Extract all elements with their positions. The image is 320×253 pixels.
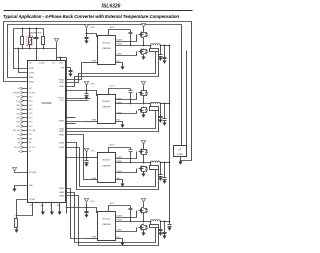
ground GND pin <box>12 189 16 192</box>
power PVCC symbol phase 2 <box>84 82 88 85</box>
capacitor output C3b <box>164 163 166 178</box>
wire driver GND phase 4 <box>116 239 123 243</box>
svg-text:Typical Application - 4-Phase: Typical Application - 4-Phase Buck Conve… <box>3 14 179 19</box>
svg-text:PWM4: PWM4 <box>59 188 64 190</box>
resistor RSEN1 <box>150 49 159 52</box>
svg-text:DRIVER: DRIVER <box>102 48 111 50</box>
svg-text:TCOMP: TCOMP <box>29 199 36 201</box>
svg-text:LOAD: LOAD <box>177 153 183 156</box>
svg-text:BOOT: BOOT <box>110 203 115 205</box>
capacitor output C3a <box>160 163 162 175</box>
svg-text:VID1: VID1 <box>29 122 33 124</box>
resistor R1 <box>22 29 24 37</box>
wire branch to IC TM pin <box>14 29 28 69</box>
svg-text:ISEN4: ISEN4 <box>59 196 64 198</box>
capacitor output C1a <box>160 46 162 55</box>
resistor R3 TCOMP <box>15 219 18 228</box>
svg-text:REF: REF <box>61 68 64 70</box>
svg-text:PSI: PSI <box>17 134 20 136</box>
resistor RSEN2 <box>150 107 159 111</box>
wire UGATE phase 2 <box>116 93 137 100</box>
transistor Q6 lower MOSFET <box>143 166 145 167</box>
power +5V connector (EN pullup) <box>12 168 16 171</box>
svg-text:VID0: VID0 <box>29 126 33 128</box>
wire VIN sense rail <box>186 51 188 146</box>
ground driver phase 4 <box>120 243 124 246</box>
inductor L4 <box>151 220 161 222</box>
svg-text:VID0: VID0 <box>16 126 20 128</box>
capacitor C2 REF <box>66 67 71 69</box>
svg-text:TCOMP: TCOMP <box>39 62 46 64</box>
svg-text:ISL6612: ISL6612 <box>102 101 111 103</box>
svg-text:VID6: VID6 <box>29 101 33 103</box>
power +12V drain symbol phase 2 <box>141 82 145 85</box>
load box uP LOAD <box>174 146 187 157</box>
svg-text:EN: EN <box>29 88 32 90</box>
wire UGATE phase 1 <box>116 35 137 42</box>
svg-text:DRIVER: DRIVER <box>102 107 111 109</box>
wire vertical VCC bus <box>66 58 68 214</box>
ground lower FET phase 1 <box>143 56 145 58</box>
capacitor output C4a <box>160 222 162 230</box>
transistor Q8 lower MOSFET <box>143 224 145 225</box>
wire PWM input phase 1 <box>85 62 98 64</box>
svg-text:VID_SEL: VID_SEL <box>29 130 36 132</box>
svg-text:VR_ON: VR_ON <box>29 147 35 149</box>
driver U3 ISL6612 <box>98 95 116 124</box>
resistor RSEN4 <box>150 225 159 228</box>
svg-text:ISEN1: ISEN1 <box>59 86 64 88</box>
svg-text:VID6: VID6 <box>16 101 20 103</box>
op IC U1 ISL6326 controller <box>28 61 66 203</box>
wire inductor output phase 4 <box>161 221 170 223</box>
wire TM bottom pin <box>17 203 33 216</box>
wire VCC feed phase 2 <box>67 90 87 92</box>
svg-text:TM: TM <box>29 62 32 64</box>
wire TCOMP top stub <box>36 49 38 61</box>
wire ISEN1 pair <box>66 52 156 83</box>
wire TCOMP network <box>17 200 28 219</box>
transistor Q5 upper MOSFET <box>143 149 145 150</box>
node thermistor top bus <box>14 28 44 30</box>
svg-text:ISEN1: ISEN1 <box>59 82 64 84</box>
svg-text:PWM3: PWM3 <box>59 135 64 137</box>
ground driver phase 1 <box>120 67 124 70</box>
driver U4 ISL6612 <box>98 153 116 183</box>
capacitor output C2a <box>160 104 162 117</box>
svg-text:VSEN: VSEN <box>29 77 34 79</box>
wire VSEN remote sense loop <box>4 22 192 161</box>
power VCC symbol <box>54 39 58 42</box>
svg-text:PVCC: PVCC <box>90 201 95 203</box>
svg-text:PWM: PWM <box>92 178 97 180</box>
transistor Q1 upper MOSFET <box>143 32 145 33</box>
junctions <box>22 28 24 30</box>
svg-text:VID_SEL: VID_SEL <box>13 130 20 132</box>
wire driver GND phase 1 <box>116 63 123 67</box>
transistor Q4 lower MOSFET <box>143 107 145 108</box>
svg-text:OFS: OFS <box>17 138 21 140</box>
svg-text:PVCC: PVCC <box>90 27 95 29</box>
svg-text:OFS: OFS <box>40 205 43 207</box>
svg-text:ISEN4: ISEN4 <box>59 192 64 194</box>
svg-text:GND: GND <box>59 62 64 64</box>
svg-text:PVCC: PVCC <box>90 84 95 86</box>
capacitor PVCC decoupling phase 3 <box>86 158 88 161</box>
wire PWM3 routing <box>66 135 85 180</box>
svg-text:SS: SS <box>29 151 31 153</box>
wire ISEN4 pair <box>66 193 156 243</box>
svg-text:ISEN3: ISEN3 <box>59 147 64 149</box>
svg-text:PVCC: PVCC <box>90 151 95 153</box>
wire UGATE phase 3 <box>116 152 137 159</box>
wire PGOOD stub <box>66 98 91 100</box>
wire VCC bus tap <box>60 58 62 61</box>
capacitor bulk VOUT <box>169 224 171 225</box>
inductor L1 <box>151 44 161 46</box>
wire LGATE phase 3 <box>116 169 137 173</box>
wire branch to IC pin <box>19 49 28 73</box>
svg-text:PWM: PWM <box>92 119 97 121</box>
capacitor output C1b <box>164 46 166 58</box>
ground lower FET phase 2 <box>143 114 145 116</box>
wire inductor output phase 3 <box>161 162 170 164</box>
transistor Q2 lower MOSFET <box>143 49 145 50</box>
ground lower FET phase 4 <box>143 232 145 234</box>
wire VCC to IC <box>56 49 58 61</box>
svg-text:VR_RDY: VR_RDY <box>13 92 21 94</box>
wire stub pin <box>66 117 76 119</box>
wire PWM4 routing <box>66 189 85 239</box>
wire ISEN2 pair <box>66 111 156 129</box>
ground driver phase 2 <box>120 125 124 128</box>
power +12V drain symbol phase 4 <box>141 199 145 202</box>
wire load ground <box>180 157 182 162</box>
capacitor output C2b <box>164 104 166 119</box>
ground driver phase 3 <box>120 184 124 187</box>
wire PWM input phase 3 <box>85 179 98 181</box>
wire PWM input phase 2 <box>85 121 98 123</box>
svg-text:ISEN3: ISEN3 <box>59 143 64 145</box>
ground REF cap <box>68 74 72 77</box>
node PHASE line phase 1 <box>116 45 151 47</box>
ground load <box>178 162 182 165</box>
svg-text:VID4: VID4 <box>29 109 33 111</box>
capacitor PVCC decoupling phase 4 <box>86 208 88 212</box>
svg-text:FS: FS <box>29 143 31 145</box>
transistor Q7 upper MOSFET <box>143 207 145 208</box>
ground lower FET phase 3 <box>143 173 145 175</box>
svg-text:VID7: VID7 <box>16 97 20 99</box>
node VOUT rail <box>169 46 171 224</box>
wire inductor output phase 2 <box>161 103 170 105</box>
wire LGATE phase 2 <box>116 111 137 114</box>
resistor RSEN3 <box>150 166 159 170</box>
svg-text:VID5: VID5 <box>29 105 33 107</box>
power +12V drain symbol phase 3 <box>141 141 145 144</box>
svg-text:DRIVER: DRIVER <box>102 224 111 226</box>
wire LGATE phase 1 <box>116 52 137 56</box>
svg-text:VID4: VID4 <box>16 109 20 111</box>
svg-text:ISL6326: ISL6326 <box>102 4 121 10</box>
transistor Q3 upper MOSFET <box>143 90 145 91</box>
wire VCC feed phase 4 <box>67 207 87 209</box>
svg-text:BOOT: BOOT <box>110 27 115 29</box>
wire inductor output phase 1 <box>161 45 170 47</box>
power PVCC symbol phase 3 <box>84 149 88 152</box>
IC bottom pins arrows <box>42 203 44 212</box>
svg-text:BOOT: BOOT <box>110 144 115 146</box>
wire PWM input phase 4 <box>85 238 98 240</box>
svg-text:PWM: PWM <box>92 61 97 63</box>
svg-text:VCC: VCC <box>52 62 56 64</box>
svg-text:VID3: VID3 <box>16 113 20 115</box>
power +12V drain symbol phase 1 <box>141 24 145 27</box>
svg-text:VR_RDY: VR_RDY <box>29 92 36 94</box>
svg-text:TM: TM <box>30 205 33 207</box>
ground bulk cap <box>167 228 171 231</box>
svg-text:VID2: VID2 <box>16 118 20 120</box>
svg-text:ISEN2: ISEN2 <box>59 128 64 130</box>
inductor L2 <box>151 102 161 104</box>
wire PWM1 routing <box>66 63 85 80</box>
svg-text:VID2: VID2 <box>29 117 33 119</box>
wire driver GND phase 3 <box>116 180 123 184</box>
capacitor PVCC decoupling phase 1 <box>86 34 88 38</box>
svg-text:VDIFF: VDIFF <box>29 68 34 70</box>
svg-text:ISL6612: ISL6612 <box>102 160 111 162</box>
capacitor PVCC decoupling phase 2 <box>86 91 88 94</box>
svg-text:VID3: VID3 <box>29 113 33 115</box>
wire VCC feed phase 1 <box>87 34 98 37</box>
wire RGND remote sense loop <box>8 25 182 146</box>
power PVCC symbol phase 1 <box>84 25 88 28</box>
svg-text:EN_PWR: EN_PWR <box>29 172 37 174</box>
svg-text:DRIVER: DRIVER <box>102 165 111 167</box>
svg-text:VID7: VID7 <box>29 96 33 98</box>
capacitor C1 <box>36 29 38 38</box>
svg-text:RGND: RGND <box>29 81 35 83</box>
wire ISEN3 pair <box>66 148 156 187</box>
wire EN_PWR <box>15 172 28 173</box>
svg-text:PSI: PSI <box>29 134 32 136</box>
svg-text:BOOT: BOOT <box>110 86 115 88</box>
capacitor output C4b <box>164 222 166 233</box>
svg-text:COMP: COMP <box>29 72 35 74</box>
wire IOUT stub <box>66 100 89 102</box>
svg-text:VID1: VID1 <box>16 122 20 124</box>
wire VCC feed phase 3 <box>67 157 87 159</box>
driver U5 ISL6612 <box>98 212 116 241</box>
svg-text:µP: µP <box>179 149 182 151</box>
wire stub pin <box>66 123 76 125</box>
svg-text:OFS: OFS <box>29 138 32 140</box>
svg-text:ISEN2: ISEN2 <box>59 131 64 133</box>
svg-text:ISL6612: ISL6612 <box>102 218 111 220</box>
wire PWM2 routing <box>66 121 85 123</box>
ground TCOMP network <box>14 230 18 233</box>
wire driver GND phase 2 <box>116 122 123 125</box>
node PHASE line phase 3 <box>116 162 151 164</box>
inductor L3 <box>151 161 161 163</box>
svg-text:IOUT: IOUT <box>60 100 64 102</box>
node thermistor bottom bus <box>14 48 57 50</box>
wire LGATE phase 4 <box>116 228 137 232</box>
svg-text:ISL6326: ISL6326 <box>41 101 52 105</box>
resistor R2 <box>43 29 45 37</box>
header rule <box>4 10 193 12</box>
svg-text:PWM: PWM <box>92 237 97 239</box>
svg-text:GND: GND <box>29 185 34 187</box>
svg-text:PWM2: PWM2 <box>59 121 64 123</box>
svg-text:VR_ON: VR_ON <box>14 147 21 149</box>
wire GND pin <box>15 186 28 189</box>
node PHASE line phase 2 <box>116 103 151 105</box>
node PHASE line phase 4 <box>116 221 151 223</box>
svg-text:ISL6612: ISL6612 <box>102 42 111 44</box>
power PVCC symbol phase 4 <box>84 199 88 202</box>
wire UGATE phase 4 <box>116 211 137 218</box>
driver U2 ISL6612 <box>98 36 116 65</box>
svg-text:VID5: VID5 <box>16 105 20 107</box>
